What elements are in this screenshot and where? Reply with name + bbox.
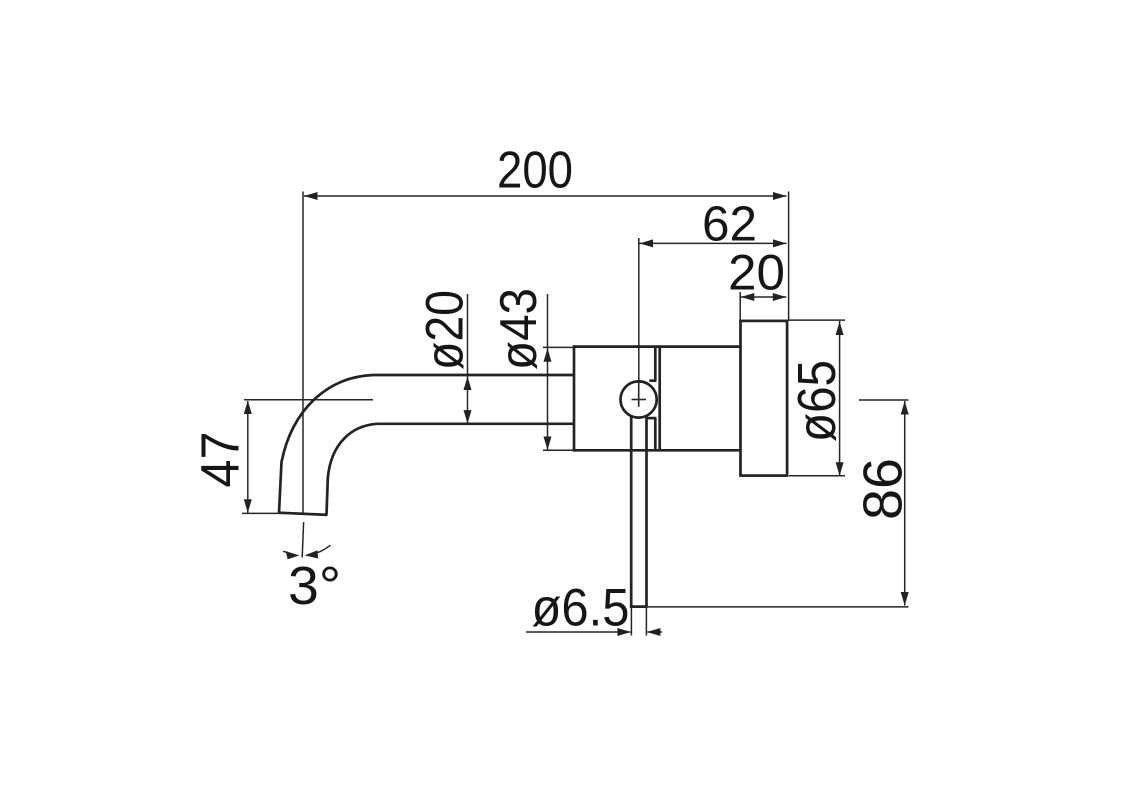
arrowhead 86 up [901,401,909,415]
arrowhead 47 down [244,499,252,513]
pivot cross horizontal [632,399,647,401]
handle rod left edge [630,415,633,606]
svg-text:20: 20 [728,245,785,301]
dim 86 line [904,401,906,606]
dim o6.5 right tail [647,631,662,633]
dim 200/62 right extension line [788,192,790,322]
dim o65 top extension [789,319,845,321]
svg-text:ø43: ø43 [490,288,548,370]
dim 20 left extension line [739,292,741,321]
dim o20 vertical leader [467,294,469,424]
spout inner curve [327,424,378,515]
arrowhead 20 right [773,293,787,301]
svg-text:3°: 3° [288,556,341,616]
arrowhead o6.5 right-pointing [617,628,631,636]
pivot cross vertical [638,382,640,407]
dim 86 bottom extension (from rod bottom) [648,606,909,608]
dim o43 top extension [543,346,574,348]
arrowhead 62 right [773,239,787,247]
dim o43 bottom extension [543,449,574,451]
svg-text:ø6.5: ø6.5 [532,579,630,638]
arrowhead 3deg right [305,550,318,558]
arrowhead o43 down [544,437,552,451]
svg-text:47: 47 [192,432,251,488]
arrowhead 200 right [773,192,787,200]
arrowhead o65 down [836,462,844,476]
body split jog top [649,379,656,382]
arrowhead 47 up [244,401,252,415]
dim 20 line [740,296,786,298]
pivot ball circle [621,381,657,417]
body split line A lower [654,418,657,450]
dim 47 bottom extension [242,512,283,514]
handle rod bottom [630,605,648,608]
dim 86 top extension [859,399,909,401]
body left edge [573,345,576,451]
3 deg arc [312,545,331,554]
dim o43 vertical leader [547,294,549,450]
dim 62 left extension line (handle axis) [638,238,640,392]
svg-text:200: 200 [497,141,573,199]
dim 62 line [639,242,787,244]
body bottom edge [574,449,741,452]
3 deg left tail [283,551,288,552]
arrowhead 86 down [901,592,909,606]
svg-text:62: 62 [702,197,757,252]
dim 200 left extension line [302,192,304,514]
dim o6.5 left extension [630,608,632,636]
arrowhead o20 up [464,377,472,391]
arrowhead o43 up [544,348,552,362]
spout top line [373,374,574,377]
arrowhead o65 up [836,322,844,336]
dim o65 bottom extension [789,475,845,477]
body top edge [574,345,741,348]
spout bottom line [377,422,574,425]
dim 200 line [304,195,787,197]
arrowhead o20 down [464,410,472,424]
body split line B [658,347,661,451]
wall plate [741,321,788,476]
dim o6.5 right extension [645,608,647,636]
dim o65 line [839,321,841,476]
arrowhead 62 left [640,239,654,247]
handle rod right edge [645,416,648,607]
arrowhead o6.5 left-pointing [647,628,661,636]
spout outer curve [279,375,373,513]
svg-text:86: 86 [853,458,914,520]
svg-text:ø20: ø20 [416,290,475,370]
3 deg leader [302,522,303,558]
arrowhead 20 left [741,293,755,301]
arrowhead 3deg left [286,551,300,559]
body split jog bottom [647,417,657,420]
body split line A upper [654,347,657,381]
dim 47 line [247,401,249,513]
spout tip line [279,513,328,515]
svg-text:ø65: ø65 [787,360,847,442]
dim o6.5 left line [526,631,630,633]
arrowhead 200 left [304,192,318,200]
dim 47 top extension [244,399,373,401]
